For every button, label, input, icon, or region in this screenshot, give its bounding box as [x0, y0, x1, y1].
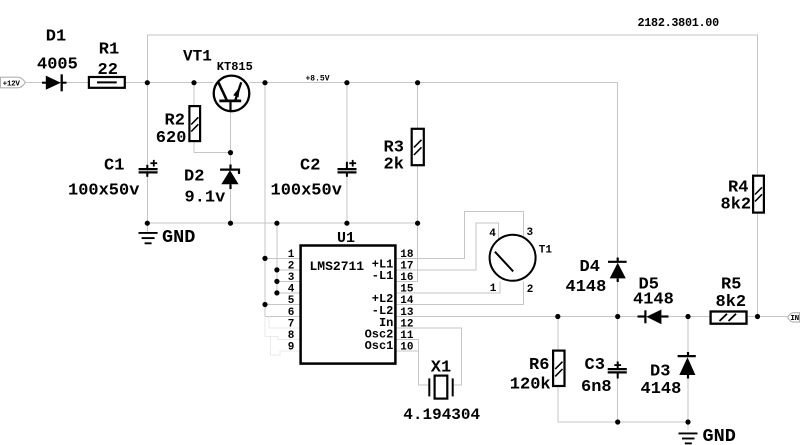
capacitor C3	[608, 362, 627, 379]
wire D2 anode to ground rail	[230, 187, 232, 223]
svg-text:D3: D3	[650, 362, 670, 381]
wire top rail to R4	[147, 35, 757, 176]
wire U1 pin 11 and pin 10 Osc1 to X1 left	[395, 340, 429, 385]
svg-text:2: 2	[527, 284, 534, 296]
svg-text:2: 2	[288, 261, 295, 273]
crystal X1	[429, 376, 452, 399]
svg-text:6: 6	[288, 307, 295, 319]
svg-text:8k2: 8k2	[721, 196, 752, 215]
wire U1 pin 3 stub	[277, 280, 301, 282]
svg-text:GND: GND	[703, 426, 736, 445]
junction D1/R1 rail at C1 branch	[145, 80, 150, 85]
resistor R6	[553, 351, 564, 386]
wire +8.5V rail from VT1 emitter to D4 branch	[250, 82, 618, 84]
svg-text:C1: C1	[104, 157, 124, 176]
svg-text:KT815: KT815	[217, 60, 253, 74]
node +12V input tag	[1, 77, 26, 88]
svg-text:+12V: +12V	[3, 80, 21, 88]
junction In wire at R4 branch	[755, 314, 760, 319]
svg-text:1: 1	[288, 249, 295, 261]
svg-text:3: 3	[288, 272, 295, 284]
svg-text:R6: R6	[529, 356, 549, 375]
resistor R1	[89, 77, 125, 88]
junction +8.5V rail at U1 supply branch	[262, 80, 267, 85]
wire R6 branch	[558, 317, 618, 423]
svg-text:U1: U1	[337, 230, 355, 247]
svg-text:17: 17	[400, 261, 413, 273]
node IN output tag	[788, 313, 800, 323]
junction In wire at D4/C3 branch	[615, 314, 620, 319]
junction U1 pin 2 on ground line	[274, 267, 279, 272]
svg-text:C3: C3	[585, 356, 605, 375]
junction U1 pin 3 on ground line	[274, 279, 279, 284]
resistor R2	[189, 106, 200, 141]
svg-text:T1: T1	[539, 244, 553, 256]
capacitor C1	[139, 160, 158, 177]
svg-text:X1: X1	[431, 359, 451, 378]
junction +8.5V rail at C2 branch	[344, 80, 349, 85]
svg-text:4: 4	[489, 228, 496, 240]
wire U1 pin 5 stub	[265, 304, 301, 306]
svg-text:D2: D2	[184, 168, 204, 187]
wire U1 pin 18 to T1 pin 3	[395, 212, 523, 259]
resistor R5	[711, 312, 747, 324]
svg-text:6n8: 6n8	[581, 378, 612, 397]
svg-text:4005: 4005	[37, 56, 78, 75]
svg-text:R5: R5	[721, 276, 741, 295]
wire +12V input to VT1 (main +12V rail)	[24, 82, 214, 84]
svg-text:3: 3	[527, 227, 534, 239]
wire U1 pin 4 stub	[277, 292, 301, 294]
wire C3 branch	[617, 317, 619, 423]
junction R2 to VT1 base / D2	[228, 150, 233, 155]
diode D3	[678, 352, 696, 379]
svg-text:9: 9	[288, 342, 295, 354]
svg-text:Osc1: Osc1	[365, 339, 394, 353]
wire U1 pin 7 stub	[269, 317, 300, 329]
svg-text:22: 22	[98, 61, 118, 80]
wire U1 pin 2 stub	[277, 269, 301, 271]
junction +8.5V rail at R3 branch	[415, 80, 420, 85]
ground symbol left	[139, 223, 158, 243]
junction ground rail at C1/GND	[145, 221, 150, 226]
IC U1 LMS2711	[301, 246, 396, 364]
junction ground rail at C2 bottom	[344, 221, 349, 226]
svg-text:8k2: 8k2	[716, 293, 747, 312]
wire R2 branch and VT1 base link	[194, 83, 231, 165]
U1 pin function labels	[365, 258, 394, 353]
wire U1 pin 13 In to IN node	[395, 316, 787, 318]
junction bottom rail at C3	[615, 419, 620, 424]
svg-text:4148: 4148	[633, 290, 674, 309]
wire ground rail	[147, 222, 417, 224]
junction U1 pin 1 on supply line	[262, 256, 267, 261]
svg-text:4.194304: 4.194304	[403, 406, 480, 424]
junction bottom rail at D3/GND	[685, 419, 690, 424]
transistor VT1	[214, 76, 250, 112]
wire U1 pin 1 stub	[265, 257, 301, 259]
capacitor C2	[338, 160, 357, 177]
svg-text:C2: C2	[300, 157, 320, 176]
svg-text:4148: 4148	[641, 380, 682, 399]
svg-text:D4: D4	[580, 258, 600, 277]
svg-text:5: 5	[288, 295, 295, 307]
svg-text:LMS2711: LMS2711	[310, 259, 365, 274]
T1 pin numbers	[489, 227, 533, 296]
junction In wire at D3 branch	[685, 314, 690, 319]
U1 pin numbers	[288, 249, 414, 354]
ground symbol right	[679, 433, 698, 443]
svg-text:620: 620	[156, 129, 187, 148]
wire C2 branch	[346, 83, 348, 224]
resistor R4	[753, 176, 764, 213]
svg-text:12: 12	[400, 319, 413, 331]
junction In wire at R6 branch	[555, 314, 560, 319]
wire U1 pin 15 to T1 pin 1	[395, 281, 500, 293]
svg-text:2k: 2k	[384, 155, 404, 174]
svg-text:R1: R1	[99, 40, 119, 59]
zener diode D2	[220, 165, 239, 190]
junction U1 pin 5 on supply line	[262, 302, 267, 307]
wire D3 branch	[687, 317, 689, 430]
svg-text:120k: 120k	[510, 376, 551, 395]
wire ground to U1 pins 2,3,4	[276, 223, 278, 293]
svg-text:100x50v: 100x50v	[271, 182, 342, 201]
svg-text:2182.3801.00: 2182.3801.00	[638, 16, 720, 30]
svg-text:1: 1	[490, 283, 497, 295]
svg-text:15: 15	[400, 284, 414, 296]
svg-text:13: 13	[400, 307, 414, 319]
junction ground rail at R3/pin16 branch	[415, 221, 420, 226]
diode D1	[42, 74, 67, 91]
wire D4 branch	[617, 83, 619, 317]
wire +8.5V to U1 pin 1,5,6	[264, 83, 266, 317]
wire R4 bottom to IN node	[757, 213, 759, 317]
svg-text:18: 18	[400, 249, 414, 261]
junction ground rail at U1 pins 2-4 branch	[274, 221, 279, 226]
svg-text:R2: R2	[165, 111, 185, 130]
wire bottom rail C3 to D3/GND	[618, 421, 688, 423]
junction ground rail at D2 anode	[228, 221, 233, 226]
diode D5	[638, 310, 669, 325]
svg-text:GND: GND	[162, 227, 195, 248]
wire U1 pin 17 to T1 pin 4	[395, 223, 498, 270]
wire C1 branch	[146, 83, 148, 224]
wire U1 pin 6 stub	[265, 316, 301, 318]
svg-text:4148: 4148	[566, 278, 607, 297]
svg-text:D1: D1	[46, 27, 66, 46]
svg-text:100x50v: 100x50v	[68, 182, 139, 201]
svg-text:4: 4	[288, 284, 295, 296]
junction rail at R2 branch	[191, 80, 196, 85]
diode D4	[608, 258, 627, 283]
wire U1 pin 8 stub	[265, 317, 301, 340]
svg-text:IN: IN	[790, 315, 799, 323]
transformer T1	[490, 235, 536, 281]
svg-text:+8.5V: +8.5V	[306, 75, 330, 84]
svg-text:8: 8	[288, 330, 295, 342]
resistor R3	[412, 129, 424, 165]
svg-text:16: 16	[400, 272, 413, 284]
wire U1 pin 14 to T1 pin 2	[395, 281, 523, 304]
junction U1 pin 4 on ground line	[274, 290, 279, 295]
svg-text:10: 10	[400, 342, 413, 354]
svg-text:14: 14	[400, 295, 414, 307]
svg-text:VT1: VT1	[183, 48, 212, 66]
wire R3 branch to ground rail and U1 pin 16	[395, 83, 417, 282]
wire U1 pin 12 Osc2 to X1 right	[395, 328, 461, 385]
svg-text:9.1v: 9.1v	[185, 189, 226, 208]
svg-text:11: 11	[400, 330, 414, 342]
svg-text:-L1: -L1	[372, 269, 394, 283]
svg-text:7: 7	[288, 319, 295, 331]
wire U1 pin 9 stub	[271, 336, 301, 355]
